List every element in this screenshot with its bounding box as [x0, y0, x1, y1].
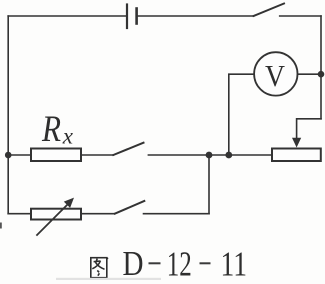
resistor Rx [31, 149, 81, 162]
svg-text:12: 12 [167, 245, 192, 284]
wire left rail [7, 16, 9, 214]
scan artifact left edge [0, 223, 2, 229]
wire S2 to node B [148, 154, 228, 156]
switch S1 lever [254, 4, 285, 17]
node A [206, 152, 213, 159]
svg-text:D: D [123, 244, 144, 283]
wire top rail left [8, 15, 127, 17]
wire top rail middle [137, 15, 254, 17]
wiper arrowhead [292, 138, 301, 148]
switch S2 lever [113, 143, 143, 155]
svg-text:V: V [265, 58, 286, 93]
caption glyph tu (figure) [91, 258, 108, 278]
wire node A down [208, 155, 210, 214]
battery long plate [126, 5, 128, 29]
voltmeter left wire [229, 74, 254, 155]
node B [225, 152, 232, 159]
potentiometer R2 [272, 149, 321, 162]
battery short plate [135, 9, 138, 24]
rheostat R1 [31, 209, 81, 220]
wire node left to Rx [8, 154, 31, 156]
rheostat arrowhead [64, 198, 74, 208]
svg-text:x: x [62, 124, 74, 149]
wire bottom left [8, 213, 31, 215]
voltmeter right wire [298, 73, 322, 75]
wire S3 to node A [144, 213, 210, 215]
wire pot to node B [229, 154, 272, 156]
caption dash 2 [200, 262, 211, 264]
rheostat arrow line [37, 203, 69, 235]
voltmeter V1 circle [254, 52, 297, 95]
caption dash 1 [149, 262, 161, 264]
svg-text:R: R [41, 109, 61, 150]
scan artifact under caption [56, 278, 161, 280]
node left rail [5, 152, 12, 159]
wire Rx to switch S2 [81, 154, 113, 156]
wire rheostat to switch S3 [81, 213, 115, 215]
wire top rail right [280, 15, 321, 17]
switch S3 lever [115, 201, 145, 214]
wire elbow to wiper [297, 119, 321, 139]
svg-text:11: 11 [221, 245, 248, 284]
wire right rail [320, 16, 322, 119]
node on right rail [318, 71, 325, 78]
